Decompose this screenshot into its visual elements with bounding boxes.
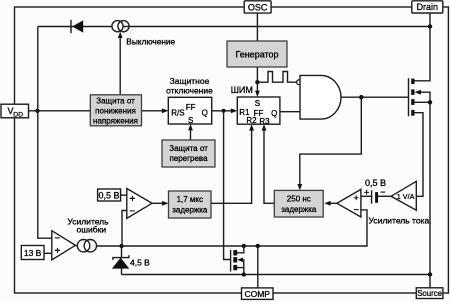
op-amp comparator 1,7us [127, 189, 152, 219]
node COMP junction [256, 244, 260, 248]
svg-text:Защита от: Защита от [96, 97, 135, 106]
label Защитное отключение [166, 76, 213, 96]
block 1,7us delay [169, 191, 212, 218]
wire: feedback rail [96, 210, 367, 246]
pin Source [416, 288, 443, 299]
svg-text:понижения: понижения [95, 107, 136, 116]
current source I1 shutdown [112, 21, 129, 32]
wire: FF2 Q to AND gate [280, 111, 300, 113]
transistor Q2 sense FET [231, 246, 244, 275]
svg-text:Защита от: Защита от [169, 144, 208, 153]
arrow into FF1 [162, 108, 168, 113]
svg-text:R2: R2 [246, 116, 257, 125]
wire: COMP pin riser [257, 246, 259, 288]
reference 0,5V box left [98, 189, 121, 201]
current source I2 error amp output [77, 240, 96, 252]
op-amp error amplifier [52, 231, 76, 260]
AND gate U3 [300, 75, 341, 119]
svg-text:+: + [130, 194, 136, 205]
wire: left rail down to error amp minus [38, 27, 52, 239]
node sense FET source junction [242, 272, 246, 276]
wire: comparator output to 1,7us delay [152, 202, 164, 204]
svg-text:1 V/A: 1 V/A [397, 192, 415, 201]
wire: MOSFET sense to current amplifier [415, 113, 424, 197]
wire: 0,5V to comparator plus [121, 194, 127, 196]
svg-text:FF: FF [186, 103, 196, 112]
svg-text:+: + [364, 188, 370, 199]
wire: FF1 Q to FF2 R1 [212, 110, 233, 112]
arrow into FF2 S [255, 91, 260, 97]
block thermal: Защита от перегрева [162, 140, 215, 167]
wire: FF1 Q down to sense FET gate [224, 111, 231, 260]
battery 0,5V reference [364, 187, 386, 204]
arrow into 250ns delay right [324, 201, 330, 206]
pin COMP [242, 288, 274, 300]
svg-text:ошибки: ошибки [76, 225, 106, 235]
wire: source path down to Source pin [429, 102, 431, 287]
wire: drain path from Drain pin to MOSFET [415, 13, 431, 81]
svg-text:−: − [55, 233, 61, 244]
wire: OSC to generator [256, 13, 258, 41]
svg-text:Усилитель тока: Усилитель тока [369, 216, 430, 226]
block generator: Генератор [227, 41, 287, 67]
svg-text:+: + [353, 193, 359, 204]
svg-text:OSC: OSC [248, 3, 268, 13]
wire: comparator output to 250ns delay [329, 202, 337, 204]
wire: MOSFET source contact [415, 101, 431, 103]
node bottom source junction [428, 272, 432, 276]
svg-text:DD: DD [13, 111, 23, 118]
transistor Q1 power MOSFET [409, 78, 415, 116]
op-amp current limit comparator [337, 189, 361, 217]
wire: top VDD rail [38, 26, 430, 28]
arrow MOSFET body [415, 90, 421, 95]
svg-text:R3: R3 [259, 117, 270, 126]
pin VDD [1, 104, 29, 118]
svg-text:S: S [255, 99, 260, 108]
arrow into FF2 R3 [262, 124, 267, 130]
node feedback-zener junction [119, 244, 123, 248]
node VDD junction [35, 109, 39, 113]
svg-text:Source: Source [417, 289, 442, 298]
svg-text:Q: Q [202, 109, 208, 118]
pin Drain [412, 1, 443, 13]
arrow into FF2 R1 [231, 108, 237, 113]
svg-text:отключение: отключение [166, 86, 213, 96]
svg-text:250 нс: 250 нс [287, 195, 311, 204]
flip-flop U1 R/S FF [168, 97, 211, 125]
op-amp V/A current amplifier [391, 181, 416, 210]
block UVLO: Защита от понижения напряжения [90, 95, 141, 126]
wire: VDD to UVLO block [29, 110, 91, 112]
wire: comparator minus to feedback node [122, 211, 127, 247]
svg-text:ШИМ: ШИМ [231, 85, 253, 95]
wire: UVLO output to FF1 R/S [141, 110, 164, 112]
pin OSC [244, 1, 271, 13]
AND inverted input bubble [297, 80, 302, 85]
arrow up into current source [118, 32, 123, 38]
node AND output junction [359, 95, 363, 99]
svg-text:напряжения: напряжения [93, 117, 138, 126]
wire: 13V to error amp plus [44, 252, 52, 254]
wire: error amp output to feedback node [75, 245, 77, 247]
wire: battery to V/A amplifier [378, 195, 391, 197]
svg-text:−: − [380, 187, 385, 197]
wire: generator to FF2 S input [256, 67, 258, 92]
svg-text:Генератор: Генератор [235, 50, 278, 60]
block 250ns delay [274, 190, 323, 217]
svg-text:13 В: 13 В [24, 248, 42, 258]
svg-text:−: − [354, 205, 359, 215]
svg-text:перегрева: перегрева [169, 154, 208, 163]
wire: 1,7us delay output to FF2 R2 [211, 129, 252, 203]
svg-text:Drain: Drain [417, 2, 439, 12]
svg-text:COMP: COMP [244, 289, 270, 299]
svg-text:+: + [55, 246, 61, 257]
wire: MOSFET body to source [420, 92, 431, 102]
node MOSFET source junction [428, 100, 432, 104]
node drain junction [428, 24, 432, 28]
wire: bottom rail zener to source [122, 274, 431, 276]
svg-text:Выключение: Выключение [126, 37, 175, 47]
wire: thermal protection to FF1 S [190, 129, 192, 140]
wire: AND output to MOSFET gate [341, 96, 409, 98]
arrow into FF2 R2 [249, 124, 254, 130]
arrow into 250ns delay top [297, 184, 302, 190]
label Усилитель ошибки [67, 216, 109, 234]
svg-text:−: − [130, 206, 136, 217]
wire: PWM clock waveform to AND gate [257, 72, 296, 83]
arrow into FF1 S [188, 124, 193, 130]
flip-flop U2 PWM latch [237, 97, 280, 126]
svg-text:4,5 В: 4,5 В [130, 258, 150, 268]
svg-text:задержка: задержка [281, 205, 317, 214]
svg-text:0,5 В: 0,5 В [98, 191, 119, 201]
zener diode 4,5V [112, 246, 129, 275]
svg-text:Защитное: Защитное [170, 76, 210, 86]
svg-text:1,7 мкс: 1,7 мкс [177, 195, 203, 204]
pin 13V reference [21, 246, 44, 260]
svg-text:S: S [188, 116, 193, 125]
diode D1 [71, 20, 83, 33]
wire: AND output down to 250ns delay [300, 97, 362, 185]
svg-text:задержка: задержка [172, 206, 208, 215]
wire: shutdown control to current source [119, 38, 121, 95]
node sense FET drain junction [242, 244, 246, 248]
arrow into 1,7us delay [162, 201, 168, 206]
svg-text:R/S: R/S [171, 109, 184, 118]
wire: comparator plus to battery [361, 195, 372, 197]
node FF1 Q branch [222, 109, 226, 113]
svg-text:Q: Q [271, 109, 277, 118]
node PWM clock junction [255, 80, 259, 84]
wire: 250ns delay output to FF2 R3 [264, 129, 274, 203]
